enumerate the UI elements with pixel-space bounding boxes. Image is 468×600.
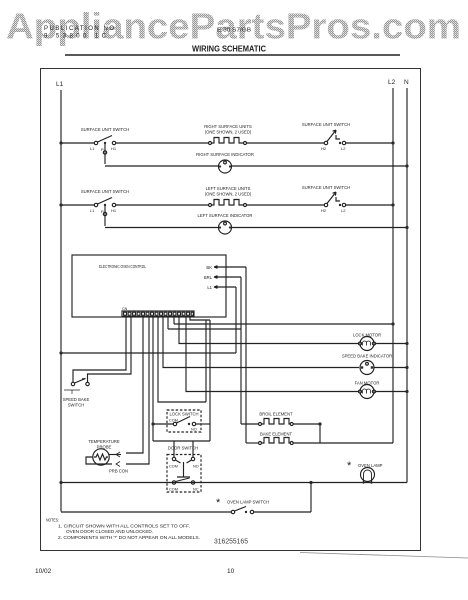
junction BK L2 <box>391 322 394 325</box>
svg-text:H1: H1 <box>111 146 117 151</box>
junction lamp switch tap <box>309 481 312 484</box>
temperature probe RT1 <box>86 439 128 474</box>
terminal on row2 P drop <box>103 212 106 215</box>
svg-text:LOCK SWITCH: LOCK SWITCH <box>169 412 198 417</box>
svg-text:COM: COM <box>169 419 178 423</box>
wire drop to door NO <box>192 441 194 457</box>
svg-text:BROIL ELEMENT: BROIL ELEMENT <box>259 412 293 417</box>
wire BRL vertical <box>240 277 242 424</box>
junction fan motor N <box>405 390 408 393</box>
svg-text:L1: L1 <box>207 285 212 290</box>
wire L2 rail <box>392 88 394 443</box>
junction row2 L2 <box>391 203 394 206</box>
junction broil right <box>318 422 321 425</box>
wire strip to probe top <box>126 317 143 453</box>
oven lamp DS1 <box>347 460 383 484</box>
title WIRING SCHEMATIC <box>192 44 266 54</box>
wire strip to lock motor <box>179 317 359 344</box>
svg-text:2. COMPONENTS WITH '*' DO N: 2. COMPONENTS WITH '*' DO NOT APPEAR ON … <box>58 535 200 540</box>
title underline <box>65 54 400 56</box>
wire N rail <box>406 88 408 483</box>
wire strip to fan motor <box>186 317 359 392</box>
junction row2 L1 <box>59 203 62 206</box>
svg-text:PUBLICATION NO: PUBLICATION NO <box>44 26 114 32</box>
svg-text:L1: L1 <box>90 146 95 151</box>
wire strip to speed bake switch left <box>73 317 126 382</box>
svg-text:NO: NO <box>193 465 199 469</box>
speed bake switch SW5 <box>63 379 90 408</box>
svg-text:SURFACE UNIT SWITCH: SURFACE UNIT SWITCH <box>302 122 350 127</box>
pin label L1 <box>207 285 236 290</box>
junction speed bake indicator N <box>405 366 408 369</box>
drawing frame <box>41 69 421 551</box>
svg-text:1. CIRCUIT SHOWN WITH ALL CO: 1. CIRCUIT SHOWN WITH ALL CONTROLS SET T… <box>58 524 190 529</box>
wire row2 P drop <box>104 206 106 226</box>
wire element to right switch row1 <box>247 142 325 144</box>
junction row1 L1 <box>59 141 62 144</box>
svg-text:RIGHT SURFACE INDICATOR: RIGHT SURFACE INDICATOR <box>196 152 254 157</box>
svg-text:COM: COM <box>169 465 178 469</box>
svg-text:NC: NC <box>193 488 199 492</box>
svg-text:BRL: BRL <box>204 275 213 280</box>
wire row1 P drop <box>104 144 106 164</box>
svg-text:TEMPERATURE: TEMPERATURE <box>88 439 120 444</box>
wire L1 feed vertical <box>235 287 237 353</box>
publication number block <box>44 26 114 40</box>
wire strip jog to lock NO verticals <box>190 317 210 320</box>
svg-text:L2: L2 <box>388 79 396 86</box>
junction L1 bus <box>59 351 62 354</box>
svg-text:COM: COM <box>169 488 178 492</box>
terminal on P drop <box>103 151 106 154</box>
notes <box>46 518 200 541</box>
wire strip to lock area top <box>158 317 206 402</box>
wire speed bake indicator to N <box>374 367 407 369</box>
svg-text:LEFT SURFACE INDICATOR: LEFT SURFACE INDICATOR <box>198 213 253 218</box>
wire door switch top run <box>153 440 210 442</box>
svg-text:10: 10 <box>227 568 235 575</box>
wire BRL to strip <box>168 317 241 329</box>
junction row1 L2 <box>391 141 394 144</box>
wire row1 switch to element <box>116 142 209 144</box>
oven lamp switch SW8 <box>216 497 269 514</box>
svg-text:10/02: 10/02 <box>35 568 52 575</box>
junction lock COM <box>151 422 154 425</box>
lamp right surface indicator <box>105 152 407 173</box>
part number 316255165 <box>214 539 248 546</box>
footer date <box>35 568 52 575</box>
svg-text:*: * <box>216 497 221 509</box>
lamp speed bake indicator <box>342 354 392 375</box>
svg-text:RIGHT SURFACE UNITS: RIGHT SURFACE UNITS <box>204 124 252 129</box>
svg-text:OVEN LAMP: OVEN LAMP <box>358 463 383 468</box>
surface unit switch SW2 (right rear) <box>302 122 350 151</box>
wire element to right switch row2 <box>247 204 325 206</box>
node N label <box>404 79 409 86</box>
svg-text:N: N <box>404 79 409 86</box>
resistor right surface units <box>204 124 252 145</box>
motor lock M1 <box>353 333 381 351</box>
pin label BRL <box>204 275 241 280</box>
svg-text:BK: BK <box>206 265 212 270</box>
surface unit switch SW3 (left front) <box>81 189 129 214</box>
wire strip to speed bake switch right <box>88 317 132 382</box>
node L1 label <box>56 81 64 88</box>
svg-text:NO: NO <box>191 428 197 432</box>
resistor bake element <box>246 432 393 445</box>
svg-text:SURFACE UNIT SWITCH: SURFACE UNIT SWITCH <box>81 127 129 132</box>
svg-text:L2: L2 <box>341 146 346 151</box>
svg-text:H1: H1 <box>111 208 117 213</box>
wire BK bus to L2 <box>174 317 393 324</box>
svg-text:PRB CON: PRB CON <box>109 469 128 474</box>
surface unit switch SW1 (right front) <box>81 127 129 152</box>
wire row1 from L1 to switch <box>61 142 95 144</box>
svg-text:CN: CN <box>122 307 128 311</box>
svg-text:316255165: 316255165 <box>214 539 248 546</box>
electronic oven control U1 <box>72 255 226 317</box>
svg-text:OVEN DOOR CLOSED AND UNLOCKED.: OVEN DOOR CLOSED AND UNLOCKED. <box>66 529 153 534</box>
svg-text:NOTES:: NOTES: <box>46 518 59 523</box>
svg-text:LEFT SURFACE UNITS: LEFT SURFACE UNITS <box>206 186 251 191</box>
lamp left surface indicator <box>105 213 407 234</box>
svg-text:SPEED BAKE INDICATOR: SPEED BAKE INDICATOR <box>342 354 392 359</box>
svg-text:OVEN LAMP SWITCH: OVEN LAMP SWITCH <box>227 500 269 505</box>
surface unit switch SW4 (left rear) <box>302 185 350 213</box>
wire row2 from L1 to switch <box>61 204 95 206</box>
svg-text:L1: L1 <box>90 208 95 213</box>
wire strip to probe bottom <box>126 317 149 464</box>
svg-text:L2: L2 <box>341 208 346 213</box>
svg-text:(ONE SHOWN, 2 USED): (ONE SHOWN, 2 USED) <box>205 130 252 135</box>
svg-text:SWITCH: SWITCH <box>68 403 85 408</box>
svg-text:H2: H2 <box>321 146 327 151</box>
footer page number <box>227 568 235 575</box>
junction bottom bus L1 <box>59 481 62 484</box>
wire lamp switch drop <box>310 483 312 513</box>
scan artifact line bottom right <box>300 553 468 559</box>
svg-text:*: * <box>347 460 352 472</box>
svg-text:ELECTRONIC OVEN CONTROL: ELECTRONIC OVEN CONTROL <box>99 264 147 269</box>
wire drop to door COM <box>173 441 175 457</box>
svg-text:SURFACE UNIT SWITCH: SURFACE UNIT SWITCH <box>81 189 129 194</box>
wire lock motor to N <box>376 343 407 345</box>
wire L1 bus <box>61 352 236 354</box>
wire fan motor to N <box>376 391 407 393</box>
wire broil to bake row <box>319 424 321 443</box>
svg-text:SURFACE UNIT SWITCH: SURFACE UNIT SWITCH <box>302 185 350 190</box>
resistor left surface units <box>205 186 252 207</box>
junction lock motor N <box>405 342 408 345</box>
wire row2 switch to element <box>116 204 209 206</box>
node L2 label <box>388 79 396 86</box>
motor fan M2 <box>355 381 380 399</box>
wire lock NO vertical b <box>209 320 211 441</box>
junction row1 N <box>405 164 408 167</box>
wire row2 to L2 <box>346 204 393 206</box>
svg-text:BAKE ELEMENT: BAKE ELEMENT <box>260 432 293 437</box>
wire lock NO vertical a <box>205 320 207 402</box>
model number <box>217 28 251 34</box>
wire L1 rail <box>60 90 62 512</box>
watermark <box>6 6 461 47</box>
wire BK vertical <box>245 267 247 443</box>
junction row2 N <box>405 226 408 229</box>
svg-text:WIRING SCHEMATIC: WIRING SCHEMATIC <box>192 44 266 54</box>
resistor broil element <box>241 412 320 426</box>
svg-text:E 30 S7/GB: E 30 S7/GB <box>217 28 251 34</box>
svg-text:H2: H2 <box>321 208 327 213</box>
svg-text:(ONE SHOWN, 2 USED): (ONE SHOWN, 2 USED) <box>205 192 252 197</box>
svg-text:SPEED BAKE: SPEED BAKE <box>63 397 90 402</box>
door switch SW7 <box>167 446 201 493</box>
wire row1 to L2 <box>346 142 393 144</box>
pin label BK <box>206 265 246 270</box>
svg-text:DOOR SWITCH: DOOR SWITCH <box>168 446 198 451</box>
wire lamp switch row <box>61 511 311 513</box>
lock switch SW6 <box>153 410 210 432</box>
wire bottom bus <box>61 482 407 484</box>
connector strip CN1 <box>122 307 194 317</box>
wire strip to speed bake indicator <box>163 317 359 368</box>
svg-text:L1: L1 <box>56 81 64 88</box>
wire strip to lock switch COM <box>152 317 154 441</box>
